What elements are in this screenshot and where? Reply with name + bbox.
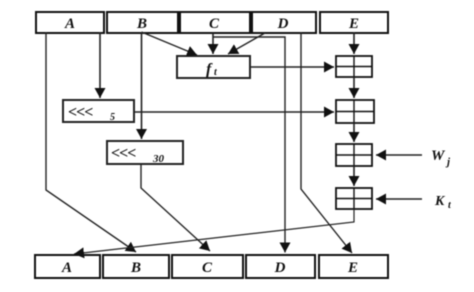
svg-text:j: j	[445, 156, 451, 168]
wire C down to f_t	[212, 33, 214, 54]
wire rotate30 output down diagonal to bottom C	[141, 164, 210, 251]
adder 4	[336, 188, 372, 209]
register E top	[320, 12, 388, 33]
wire E down to adder1	[353, 32, 355, 54]
svg-text:B: B	[136, 16, 147, 32]
register C bottom	[172, 255, 243, 278]
svg-text:<<<: <<<	[68, 104, 93, 121]
svg-text:C: C	[202, 260, 213, 276]
wire B to f_t diagonal	[142, 32, 198, 55]
wire adder4 output diagonal to bottom A	[74, 209, 354, 254]
adder 2	[336, 100, 374, 123]
svg-text:W: W	[431, 148, 446, 164]
svg-text:D: D	[274, 260, 286, 276]
register D top	[252, 12, 316, 33]
wire D long down diagonal to bottom E	[301, 32, 352, 253]
svg-text:B: B	[130, 260, 141, 276]
wire C jog down to bottom D	[213, 37, 285, 253]
adder 1	[336, 56, 372, 77]
register A bottom	[35, 255, 100, 278]
register B bottom	[103, 255, 169, 278]
register A top	[36, 12, 104, 33]
svg-text:A: A	[61, 260, 72, 276]
register B top	[107, 12, 178, 33]
svg-text:K: K	[434, 194, 446, 209]
adder 3	[336, 144, 372, 166]
wire f_t output to adder1	[250, 66, 334, 68]
wire B down to rotate-left-30	[141, 32, 143, 139]
register E bottom	[319, 255, 388, 278]
rotate left 30 box	[107, 141, 183, 164]
svg-text:30: 30	[152, 153, 165, 165]
wire W_j input	[376, 154, 422, 156]
wire adder2 to adder3	[353, 123, 355, 142]
wire rotate5 output to adder2	[134, 111, 334, 113]
function f_t box	[177, 56, 250, 78]
svg-text:E: E	[347, 260, 358, 276]
wire adder1 to adder2	[353, 77, 355, 98]
svg-text:D: D	[277, 16, 289, 32]
svg-text:C: C	[209, 16, 220, 32]
svg-text:<<<: <<<	[111, 145, 136, 162]
wire A left long down to bottom B	[46, 32, 136, 252]
wire K_t input	[376, 198, 422, 200]
svg-text:5: 5	[110, 112, 115, 123]
svg-text:E: E	[348, 16, 359, 32]
wire D to f_t diagonal	[228, 33, 265, 54]
rotate left 5 box	[63, 100, 134, 122]
svg-text:A: A	[64, 16, 75, 32]
svg-text:t: t	[448, 200, 452, 211]
wire adder3 to adder4	[353, 166, 355, 186]
register D bottom	[246, 255, 315, 278]
wire A to rotate-left-5	[99, 32, 101, 98]
register C top	[180, 12, 250, 33]
